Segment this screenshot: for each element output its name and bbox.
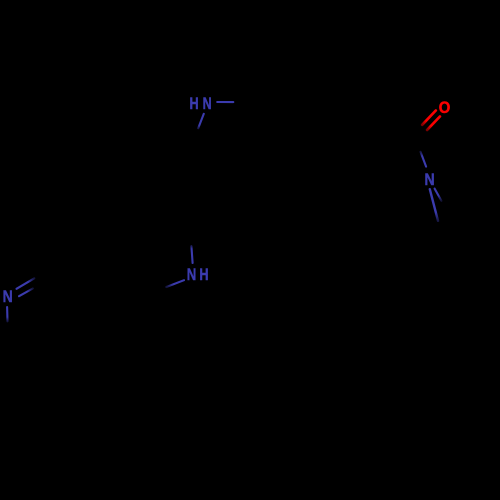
svg-text:H: H xyxy=(190,95,199,113)
svg-text:O: O xyxy=(439,99,451,117)
svg-text:N: N xyxy=(203,95,212,113)
svg-text:N: N xyxy=(424,171,434,189)
svg-text:N: N xyxy=(187,265,197,284)
svg-text:N: N xyxy=(3,288,13,306)
svg-text:H: H xyxy=(199,266,208,284)
